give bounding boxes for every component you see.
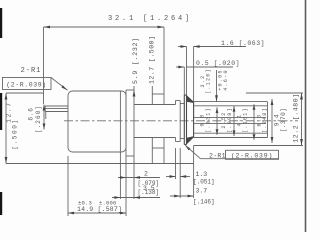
svg-text:[.099]: [.099]	[227, 107, 233, 133]
svg-text:[.051]: [.051]	[193, 179, 215, 186]
svg-text:12.7 [.500]: 12.7 [.500]	[149, 36, 156, 84]
dimension 0.5 washer	[176, 60, 240, 95]
tip step	[176, 101, 185, 142]
dimension 12.2	[194, 93, 303, 146]
bump extension stubs	[152, 148, 164, 164]
svg-text:1.3: 1.3	[196, 171, 208, 178]
svg-text:3.7: 3.7	[196, 188, 208, 195]
label 2-R1 bottom	[185, 145, 280, 160]
flange washer stack	[184, 95, 193, 145]
svg-text:2-R1: 2-R1	[209, 153, 226, 160]
dimension 1.3 tip	[166, 171, 215, 186]
svg-text:[.138]: [.138]	[138, 189, 160, 196]
border left dashes	[0, 8, 2, 215]
dimension 3.5	[112, 185, 160, 199]
flange chamfer bottom	[187, 136, 194, 144]
dimension 1.6 flange	[178, 40, 265, 102]
svg-text:[.161]: [.161]	[243, 107, 249, 133]
neck section	[134, 105, 176, 138]
svg-text:(2-R.039): (2-R.039)	[6, 82, 47, 89]
extension lines bottom right group	[176, 146, 194, 199]
dimension 4.6 above barrel	[215, 69, 229, 101]
lead terminal left	[45, 106, 68, 119]
svg-text:[.146]: [.146]	[193, 199, 215, 206]
dimension 6.6 lead	[28, 105, 46, 134]
stack text col 3	[237, 107, 249, 133]
stack text col 2	[221, 107, 233, 133]
svg-text:14.9 [.587]: 14.9 [.587]	[77, 206, 122, 213]
dimension stack line 3	[253, 104, 256, 140]
svg-text:1.6 [.063]: 1.6 [.063]	[221, 40, 265, 47]
body main block	[68, 91, 126, 152]
washer disc at body right face	[126, 90, 134, 156]
svg-text:2-R1: 2-R1	[21, 67, 42, 75]
border right edge	[305, 0, 307, 232]
svg-text:0.5 [.020]: 0.5 [.020]	[196, 60, 240, 67]
svg-text:[.260]: [.260]	[35, 105, 42, 133]
dimension stack line 2	[233, 106, 236, 136]
dimension 9.4 line	[271, 99, 274, 143]
dimension 3.7 tip-flange	[170, 188, 215, 206]
dimension 12.7 right vertical text	[149, 36, 156, 94]
label 2-R1 top	[3, 67, 68, 90]
extension lines bottom left group	[120, 152, 134, 199]
svg-text:12.2 [.480]: 12.2 [.480]	[293, 93, 300, 143]
wire centerline	[64, 120, 298, 122]
svg-text:2: 2	[144, 171, 148, 178]
flange chamfer top	[187, 95, 194, 103]
svg-text:6.6: 6.6	[28, 107, 35, 120]
dimension 2 washer	[118, 171, 160, 188]
bottom bump	[152, 138, 164, 149]
barrel body right	[194, 102, 268, 138]
dimension 9.4 text	[274, 108, 288, 133]
svg-text:[.031]: [.031]	[206, 107, 212, 133]
svg-text:[.500]: [.500]	[12, 118, 19, 149]
dimension stack line 1 in barrel	[216, 107, 219, 134]
svg-text:[.370]: [.370]	[280, 108, 287, 133]
svg-text:[.248]: [.248]	[262, 107, 268, 133]
top bump	[152, 94, 164, 105]
dimension 14.9 overall body	[68, 156, 126, 216]
extension line bottom long	[6, 163, 194, 165]
svg-text:5.9 [.232]: 5.9 [.232]	[132, 37, 139, 84]
svg-text:4.6-0: 4.6-0	[223, 69, 229, 91]
stack text col 4	[257, 107, 269, 133]
svg-text:[.126]: [.126]	[206, 68, 212, 94]
svg-text:32.1 [1.264]: 32.1 [1.264]	[108, 15, 192, 23]
dimension 3.2 above barrel	[200, 68, 212, 94]
svg-text:(2-R.039): (2-R.039)	[231, 153, 273, 160]
dimension 32.1 overall	[44, 15, 193, 104]
dimension 5.9 vertical text	[132, 37, 139, 97]
dimension 12.7 left	[5, 93, 44, 164]
stack text col 1	[200, 107, 212, 133]
